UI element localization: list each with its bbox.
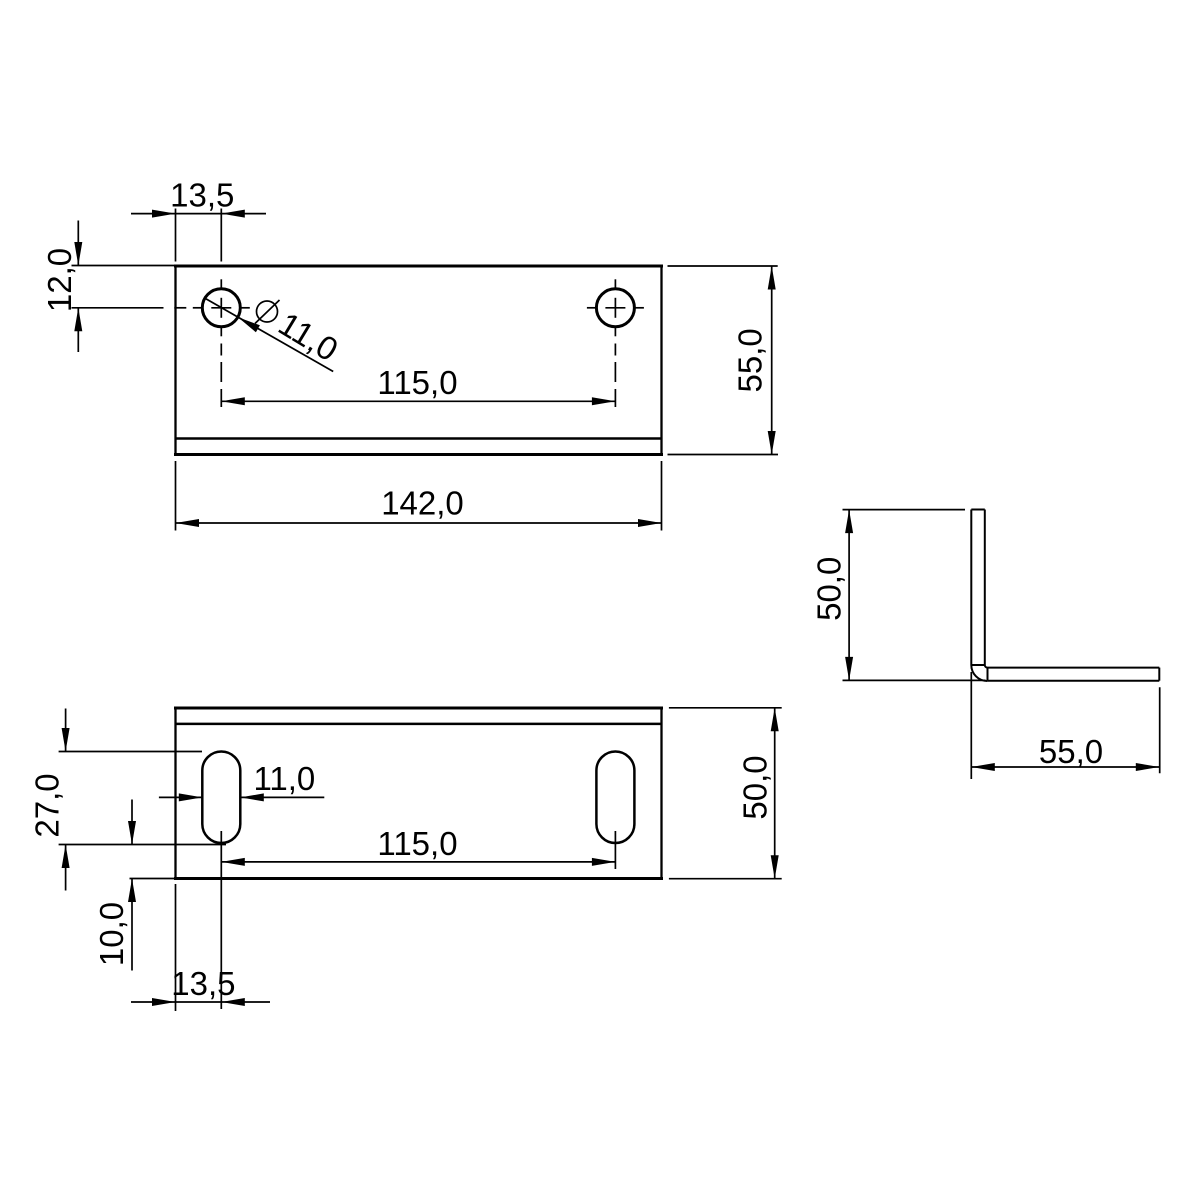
bottom view plate outline bbox=[174, 707, 663, 881]
dimension 27,0: extension line bottom bbox=[59, 844, 226, 846]
dimension 55,0 top: extension line lower bbox=[668, 454, 779, 456]
svg-text:27,0: 27,0 bbox=[29, 773, 66, 837]
dimension 12,0: dimension line lower bbox=[77, 308, 79, 352]
L profile vertical leg bbox=[971, 510, 985, 666]
dimension 50,0 bottom view: arrow down bbox=[771, 855, 779, 879]
svg-text:115,0: 115,0 bbox=[377, 825, 457, 862]
dimension 27,0: arrow up bbox=[62, 845, 70, 869]
L profile bend outer arc bbox=[971, 665, 987, 681]
dimension 12,0: dimension line upper bbox=[77, 221, 79, 266]
dimension 10,0: extension line (plate bottom) bbox=[130, 878, 176, 880]
bottom view bend line bbox=[176, 723, 662, 726]
dimension 50,0 side: extension line lower bbox=[843, 679, 986, 681]
hole H1 center mark horizontal bbox=[174, 307, 250, 309]
slot S2 outline bbox=[596, 752, 634, 844]
svg-text:13,5: 13,5 bbox=[170, 177, 234, 214]
svg-text:10,0: 10,0 bbox=[93, 902, 130, 966]
dimension 50,0 side: dimension line bbox=[848, 510, 850, 681]
hole H2 center mark vertical bbox=[614, 279, 616, 407]
dimension 13,5 bottom: arrow right bbox=[221, 998, 245, 1006]
dimension 13,5 top: arrow left bbox=[152, 210, 176, 218]
dimension 27,0: dimension line lower bbox=[65, 845, 67, 891]
dimension 50,0 side: extension line upper bbox=[843, 509, 966, 511]
dimension 11,0 slot: dimension line right bbox=[240, 796, 324, 798]
svg-text:13,5: 13,5 bbox=[171, 965, 235, 1002]
dimension 13,5 top: extension line right (hole axis) bbox=[220, 209, 222, 262]
dimension 27,0: extension line top bbox=[59, 751, 202, 753]
svg-text:11,0: 11,0 bbox=[272, 305, 344, 369]
dimension 115,0 bottom: arrow left bbox=[221, 858, 245, 866]
dimension 55,0 top: arrow up bbox=[768, 266, 776, 290]
dimension 13,5 top: arrow right bbox=[221, 210, 245, 218]
L profile horizontal leg bbox=[987, 668, 1159, 681]
dimension 50,0 bottom view: extension line upper bbox=[669, 707, 782, 709]
dimension 10,0: arrow up bbox=[128, 879, 136, 903]
dimension 115,0 bottom: arrow right bbox=[592, 858, 616, 866]
dimension 10,0: dimension line upper bbox=[131, 800, 133, 845]
dimension 12,0: arrow up bbox=[74, 308, 82, 332]
slot S1 outline bbox=[202, 752, 240, 844]
svg-text:55,0: 55,0 bbox=[1039, 733, 1103, 770]
diameter leader arrow bbox=[238, 317, 260, 332]
dimension 142,0: arrow right bbox=[638, 519, 662, 527]
svg-text:142,0: 142,0 bbox=[381, 485, 464, 522]
dimension 50,0 bottom view: dimension line bbox=[774, 708, 776, 879]
dimension 142,0: arrow left bbox=[176, 519, 200, 527]
dimension 13,5 bottom: arrow left bbox=[152, 998, 176, 1006]
dimension 55,0 top: extension line upper bbox=[668, 265, 778, 267]
dimension 12,0: extension line bottom bbox=[72, 307, 164, 309]
dimension 142,0: extension line right bbox=[661, 461, 663, 531]
slot S1 center line bbox=[220, 831, 222, 1009]
svg-text:55,0: 55,0 bbox=[732, 328, 769, 392]
diameter symbol circle bbox=[257, 301, 278, 322]
dimension 10,0: dimension line lower bbox=[131, 879, 133, 971]
L profile bend inner arc bbox=[985, 665, 988, 668]
dimension 11,0 slot: arrow left-pointing bbox=[240, 793, 263, 801]
dimension 55,0 top: dimension line bbox=[771, 266, 773, 455]
dimension 55,0 side: extension line left bbox=[970, 672, 972, 779]
top view plate outline bbox=[174, 265, 663, 457]
dimension 115,0 bottom: dimension line bbox=[221, 861, 615, 863]
hole H1 circle bbox=[202, 289, 240, 327]
dimension 13,5 top: dimension line bbox=[131, 213, 266, 215]
dimension 27,0: arrow down bbox=[62, 728, 70, 752]
dimension 142,0: extension line left bbox=[175, 461, 177, 531]
dimension 50,0 bottom view: arrow up bbox=[771, 708, 779, 732]
dimension 12,0: arrow down bbox=[74, 242, 82, 266]
svg-text:115,0: 115,0 bbox=[377, 364, 457, 401]
svg-text:50,0: 50,0 bbox=[811, 557, 848, 621]
dimension 142,0: dimension line bbox=[176, 522, 662, 524]
dimension 50,0 side: arrow down bbox=[845, 657, 853, 681]
dimension 10,0: arrow down bbox=[128, 821, 136, 845]
dimension 55,0 side: extension line right bbox=[1159, 687, 1161, 773]
svg-text:12,0: 12,0 bbox=[41, 248, 78, 312]
dimension 55,0 side: arrow right bbox=[1136, 763, 1160, 771]
dimension 11,0 slot: dimension line left bbox=[159, 796, 202, 798]
dimension 55,0 side: dimension line bbox=[971, 766, 1159, 768]
dimension 55,0 side: arrow left bbox=[971, 763, 995, 771]
hole H2 center mark horizontal bbox=[587, 307, 644, 309]
diameter symbol slash bbox=[255, 300, 280, 324]
svg-text:50,0: 50,0 bbox=[737, 755, 774, 819]
dimension 13,5 top: extension line left bbox=[175, 209, 177, 262]
dimension 50,0 bottom view: extension line lower bbox=[669, 878, 782, 880]
slot S2 center line bbox=[614, 831, 616, 869]
top view bend line bbox=[176, 437, 662, 440]
dimension 11,0 slot: arrow right-pointing bbox=[179, 793, 203, 801]
svg-text:11,0: 11,0 bbox=[254, 760, 316, 797]
dimension 115,0 top: arrow right bbox=[592, 397, 616, 405]
hole H2 circle bbox=[596, 289, 634, 327]
dimension 115,0 top: arrow left bbox=[221, 397, 245, 405]
hole H1 center mark vertical bbox=[220, 279, 222, 407]
dimension 55,0 top: arrow down bbox=[768, 431, 776, 455]
dimension 12,0: extension line top bbox=[72, 265, 176, 267]
dimension 50,0 side: arrow up bbox=[845, 510, 853, 533]
diameter leader line bbox=[205, 298, 333, 371]
dimension 13,5 bottom: dimension line bbox=[131, 1001, 270, 1003]
dimension 115,0 top: dimension line bbox=[221, 400, 615, 402]
dimension 13,5 bottom: extension line left bbox=[175, 884, 177, 1011]
dimension 27,0: dimension line upper bbox=[65, 709, 67, 752]
